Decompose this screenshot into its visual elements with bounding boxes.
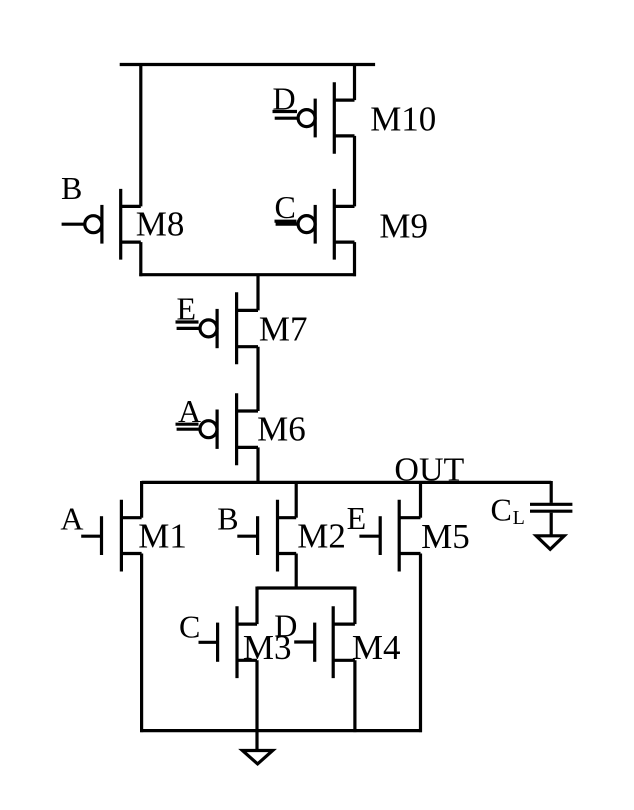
label CL — [491, 491, 525, 529]
wire junction to M7 drain — [256, 275, 259, 311]
svg-text:OUT: OUT — [394, 452, 464, 489]
svg-text:B: B — [217, 501, 238, 537]
transistor M10 — [298, 82, 354, 154]
transistor M9 — [298, 189, 354, 260]
wire M3 source down to ground stem — [255, 660, 258, 750]
wire E gate lead M5 — [359, 535, 380, 538]
wire M10 source to M9 drain — [353, 136, 356, 207]
label input C — [275, 189, 297, 225]
svg-text:L: L — [513, 507, 525, 529]
svg-text:M10: M10 — [370, 99, 436, 138]
label input E — [176, 291, 199, 327]
node OUT rail — [142, 481, 552, 484]
wire M4 source down to ground rail — [353, 660, 356, 732]
svg-text:M7: M7 — [259, 310, 308, 349]
wire M6 source to OUT rail — [256, 447, 259, 482]
capacitor CL — [530, 481, 572, 536]
transistor M4 — [315, 606, 355, 678]
wire M7 source to M6 drain — [256, 347, 259, 411]
label input A — [176, 393, 202, 429]
wire M3 drain from rail — [255, 587, 258, 625]
wire bottom ground rail — [140, 729, 422, 732]
svg-text:D: D — [274, 607, 297, 643]
wire A gate lead M1 — [81, 535, 101, 538]
wire M9 source down — [353, 242, 356, 276]
ground symbol — [242, 751, 272, 764]
wire lower rail of PMOS block — [139, 273, 356, 276]
svg-text:C: C — [179, 608, 200, 644]
wire C gate lead — [276, 223, 298, 226]
svg-text:C: C — [491, 491, 512, 527]
svg-text:M1: M1 — [138, 517, 187, 556]
wire M8 drain from rail — [139, 63, 142, 206]
svg-text:C: C — [275, 189, 296, 225]
label input D — [273, 80, 298, 116]
svg-text:M2: M2 — [297, 516, 346, 555]
wire E gate lead — [177, 327, 200, 330]
wire B gate lead — [62, 223, 85, 226]
wire D gate lead — [275, 117, 298, 120]
wire M1 drain to OUT rail — [140, 481, 143, 518]
transistor M3 — [218, 606, 257, 678]
wire D gate lead M4 — [294, 640, 315, 643]
svg-text:M4: M4 — [352, 628, 401, 667]
svg-text:A: A — [60, 500, 83, 536]
wire M5 source down to ground rail — [419, 554, 422, 733]
transistor M6 — [200, 393, 258, 465]
transistor M2 — [258, 500, 297, 572]
svg-text:E: E — [347, 500, 367, 536]
wire M2 drain to OUT rail — [295, 481, 298, 518]
wire M4 drain from rail — [353, 587, 356, 625]
wire M8 source down — [139, 242, 142, 276]
wire A gate lead — [177, 428, 200, 431]
transistor M5 — [380, 500, 420, 572]
transistor M8 — [85, 189, 141, 260]
wire C gate lead M3 — [199, 641, 218, 644]
svg-text:M9: M9 — [379, 206, 428, 245]
wire B gate lead M2 — [237, 535, 257, 538]
svg-text:M6: M6 — [257, 410, 306, 449]
transistor M7 — [200, 292, 258, 364]
svg-text:M5: M5 — [421, 517, 470, 556]
ground symbol at CL — [536, 536, 564, 550]
wire M2 source down to M3/M4 rail — [295, 554, 298, 589]
wire M3/M4 top rail — [257, 586, 355, 589]
wire VDD top rail — [120, 63, 375, 66]
wire M10 drain to rail — [353, 63, 356, 100]
svg-text:M8: M8 — [136, 205, 185, 244]
svg-text:B: B — [61, 170, 82, 206]
wire M5 drain to OUT rail — [419, 481, 422, 518]
wire M1 source down to ground rail — [140, 554, 143, 733]
transistor M1 — [102, 500, 142, 572]
